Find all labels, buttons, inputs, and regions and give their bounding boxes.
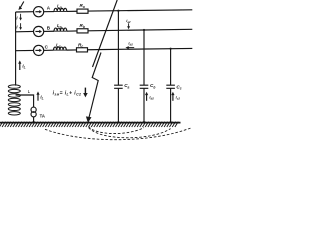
arrow: i at top of neutral bus: [20, 2, 24, 8]
dashed earth-return current path to Cb: [89, 127, 144, 134]
wire: phase C left segment: [16, 49, 34, 51]
wire: capacitor to ground: [170, 88, 172, 122]
source B (current source circle with arrow): [34, 26, 44, 36]
dashed earth-return current path to Cc: [89, 128, 171, 138]
arrow: iL up arrow at TA branch: [37, 94, 39, 101]
wire: phase A left segment: [16, 11, 34, 13]
wire: fault slash line crossing phases: [93, 0, 118, 67]
arrow: ib2 up arrow below Cb: [146, 94, 148, 101]
svg-text:L: L: [28, 89, 31, 94]
resistor Rb: [77, 29, 88, 33]
wire: phase B between source and inductor: [44, 30, 54, 32]
wire: phase B right segment: [88, 29, 192, 30]
transformer TA (current transformer, two circles): [31, 107, 36, 112]
wire: phase A between source and inductor: [44, 11, 54, 13]
ground (earth hatched line): [0, 122, 181, 124]
arrow: bold down arrow after formula: [84, 88, 86, 94]
arrow+label: small current mark 2 on bus: [20, 23, 22, 28]
capacitor plates: [114, 85, 123, 88]
svg-text:TA: TA: [40, 114, 45, 119]
inductor Lb: [54, 28, 67, 31]
wire: capacitor branch drop at x=144.0: [143, 30, 145, 85]
resistor Ra: [77, 9, 88, 13]
wire: neutral bus: [15, 12, 17, 86]
wire: phase B left segment: [16, 30, 34, 32]
wire: capacitor branch drop at x=170.6: [170, 49, 172, 86]
node: junction on phase line: [170, 48, 172, 50]
arrow: iL up arrow on neutral bus: [19, 63, 21, 71]
arrow: ia2 down arrow near Ca branch: [128, 23, 130, 27]
arrow: ic2 up arrow below Cc: [172, 94, 174, 101]
arrow+label: small current mark 1 on bus: [20, 14, 22, 19]
arrow: ib2 left arrow above phase C: [128, 47, 134, 49]
wire: capacitor to ground: [143, 88, 145, 122]
inductor La: [54, 8, 67, 11]
dashed earth-return current path (large arc): [45, 128, 192, 140]
node: junction on phase line: [117, 10, 119, 12]
wire: phase C between source and inductor: [44, 49, 54, 51]
wire: phase C between inductor and resistor: [66, 49, 76, 51]
wire: phase A between inductor and resistor: [67, 10, 77, 12]
inductor L (arc suppression coil): [8, 85, 20, 88]
wire: coil tap to TA branch: [16, 95, 34, 107]
wire: phase B between inductor and resistor: [67, 30, 77, 32]
wire: capacitor branch drop at x=118.4: [117, 11, 119, 85]
node: wire-ground junctions: [33, 121, 35, 123]
capacitor plates: [140, 85, 149, 88]
source A (current source circle with arrow): [34, 7, 44, 17]
resistor Rc: [77, 48, 88, 52]
wire: capacitor to ground: [117, 88, 119, 122]
node: junction on phase line: [143, 29, 145, 31]
wire: phase C right segment: [88, 48, 193, 49]
lightning bolt (earth fault): [89, 53, 101, 120]
wire: TA to ground: [33, 117, 35, 123]
source C (current source circle with arrow): [34, 45, 44, 55]
capacitor plates: [166, 85, 175, 88]
wire: phase A right segment: [88, 10, 192, 11]
inductor Lc: [54, 47, 67, 50]
